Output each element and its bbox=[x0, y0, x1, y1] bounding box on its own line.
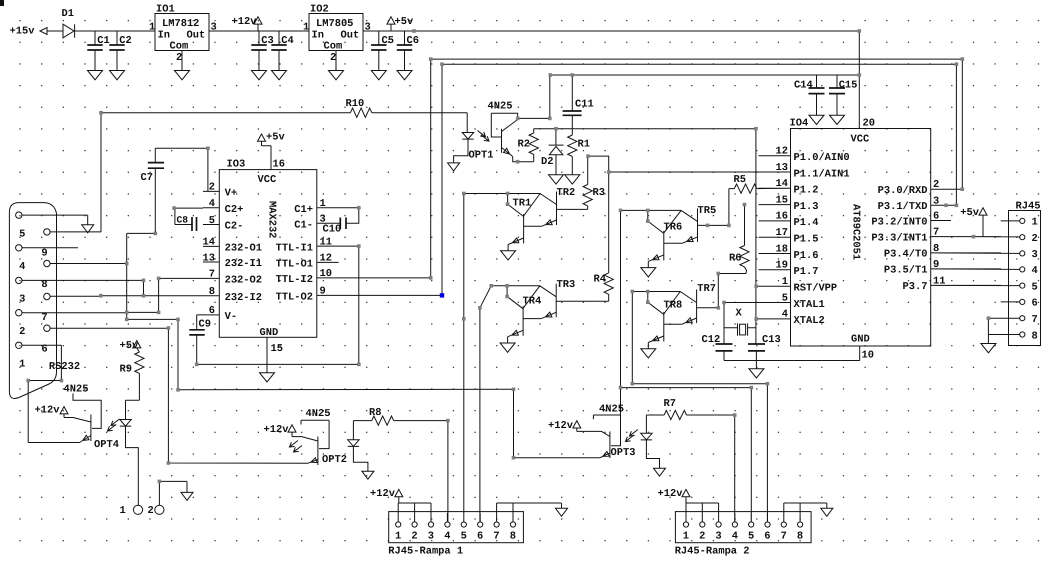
svg-text:1: 1 bbox=[683, 531, 689, 543]
svg-text:3: 3 bbox=[19, 294, 25, 306]
svg-text:232-I1: 232-I1 bbox=[225, 258, 262, 270]
svg-text:VCC: VCC bbox=[851, 134, 870, 146]
svg-text:R3: R3 bbox=[593, 187, 605, 199]
svg-text:C8: C8 bbox=[177, 214, 189, 225]
svg-text:2: 2 bbox=[148, 505, 154, 517]
svg-text:P1.0/AIN0: P1.0/AIN0 bbox=[794, 152, 850, 164]
svg-text:P1.2: P1.2 bbox=[794, 185, 819, 197]
svg-text:+12v: +12v bbox=[232, 16, 258, 28]
svg-text:13: 13 bbox=[776, 162, 788, 174]
svg-text:RJ45: RJ45 bbox=[1016, 200, 1041, 212]
svg-text:TR4: TR4 bbox=[523, 296, 542, 308]
svg-text:P3.1/TXD: P3.1/TXD bbox=[878, 201, 928, 213]
svg-text:5: 5 bbox=[19, 228, 25, 240]
svg-text:5: 5 bbox=[782, 292, 788, 304]
svg-text:12: 12 bbox=[776, 146, 788, 158]
svg-text:Out: Out bbox=[187, 30, 206, 42]
svg-text:13: 13 bbox=[203, 252, 215, 264]
svg-text:3: 3 bbox=[715, 531, 721, 543]
svg-text:2: 2 bbox=[176, 52, 182, 64]
svg-text:R1: R1 bbox=[578, 139, 590, 151]
svg-text:2: 2 bbox=[19, 326, 25, 338]
svg-text:19: 19 bbox=[776, 260, 788, 272]
svg-text:P3.3/INT1: P3.3/INT1 bbox=[871, 232, 927, 244]
svg-text:C3: C3 bbox=[261, 35, 273, 47]
svg-text:P1.3: P1.3 bbox=[794, 201, 819, 213]
svg-text:2: 2 bbox=[330, 52, 336, 64]
svg-text:R9: R9 bbox=[120, 364, 132, 376]
svg-text:TR2: TR2 bbox=[557, 187, 576, 199]
svg-text:C13: C13 bbox=[762, 334, 781, 346]
svg-text:+12v: +12v bbox=[264, 424, 290, 436]
svg-text:8: 8 bbox=[797, 531, 803, 543]
svg-text:14: 14 bbox=[203, 237, 215, 249]
svg-text:1: 1 bbox=[395, 531, 401, 543]
svg-text:C4: C4 bbox=[281, 35, 293, 47]
svg-text:TTL-I1: TTL-I1 bbox=[276, 242, 313, 254]
svg-text:4: 4 bbox=[19, 261, 25, 273]
svg-text:IO3: IO3 bbox=[227, 159, 246, 171]
svg-text:C11: C11 bbox=[575, 99, 594, 111]
svg-text:6: 6 bbox=[1032, 298, 1038, 310]
svg-text:17: 17 bbox=[776, 227, 788, 239]
svg-text:+15v: +15v bbox=[10, 26, 36, 38]
svg-text:12: 12 bbox=[320, 253, 332, 265]
svg-text:IO4: IO4 bbox=[790, 117, 809, 129]
svg-text:P3.5/T1: P3.5/T1 bbox=[884, 265, 928, 277]
svg-text:TR6: TR6 bbox=[664, 222, 683, 234]
svg-text:4N25: 4N25 bbox=[599, 404, 624, 416]
svg-text:C14: C14 bbox=[794, 80, 813, 92]
svg-text:10: 10 bbox=[320, 268, 332, 280]
svg-text:R10: R10 bbox=[346, 98, 365, 110]
svg-text:11: 11 bbox=[320, 236, 332, 248]
svg-text:D2: D2 bbox=[541, 156, 553, 168]
svg-text:In: In bbox=[158, 30, 170, 42]
svg-text:P1.4: P1.4 bbox=[794, 217, 819, 229]
svg-text:20: 20 bbox=[863, 117, 875, 129]
svg-text:4: 4 bbox=[732, 531, 738, 543]
svg-text:1: 1 bbox=[19, 359, 25, 371]
svg-text:R6: R6 bbox=[729, 253, 741, 265]
svg-text:7: 7 bbox=[209, 269, 215, 281]
svg-text:RS232: RS232 bbox=[49, 361, 80, 373]
svg-text:4N25: 4N25 bbox=[488, 101, 513, 113]
svg-text:TTL-I2: TTL-I2 bbox=[276, 274, 313, 286]
svg-text:GND: GND bbox=[851, 333, 870, 345]
svg-text:9: 9 bbox=[320, 286, 326, 298]
svg-text:4N25: 4N25 bbox=[64, 384, 89, 396]
svg-text:R8: R8 bbox=[369, 407, 381, 419]
svg-text:C9: C9 bbox=[199, 318, 211, 330]
svg-text:1: 1 bbox=[320, 198, 326, 210]
svg-text:15: 15 bbox=[271, 343, 283, 355]
svg-text:8: 8 bbox=[933, 243, 939, 255]
svg-text:8: 8 bbox=[41, 279, 47, 291]
svg-text:18: 18 bbox=[776, 243, 788, 255]
svg-text:+5v: +5v bbox=[395, 16, 414, 28]
svg-text:+12v: +12v bbox=[35, 405, 61, 417]
svg-text:6: 6 bbox=[933, 211, 939, 223]
svg-text:Com: Com bbox=[170, 41, 189, 53]
svg-text:P3.2/INT0: P3.2/INT0 bbox=[871, 216, 927, 228]
svg-text:1: 1 bbox=[120, 505, 126, 517]
svg-text:232-O1: 232-O1 bbox=[225, 243, 262, 255]
svg-text:Com: Com bbox=[324, 41, 343, 53]
svg-text:Out: Out bbox=[341, 30, 360, 42]
svg-text:LM7812: LM7812 bbox=[162, 18, 199, 30]
svg-text:C12: C12 bbox=[702, 334, 721, 346]
svg-text:+5v: +5v bbox=[120, 340, 139, 352]
svg-text:4N25: 4N25 bbox=[306, 408, 331, 420]
svg-text:+12v: +12v bbox=[370, 488, 396, 500]
svg-text:1: 1 bbox=[149, 22, 155, 34]
svg-text:3: 3 bbox=[365, 22, 371, 34]
svg-text:TTL-O1: TTL-O1 bbox=[276, 259, 313, 271]
svg-text:C15: C15 bbox=[839, 80, 858, 92]
svg-text:P3.4/T0: P3.4/T0 bbox=[884, 249, 928, 261]
svg-text:C1-: C1- bbox=[294, 219, 313, 231]
svg-text:P1.1/AIN1: P1.1/AIN1 bbox=[794, 168, 850, 180]
svg-text:V+: V+ bbox=[225, 188, 237, 200]
svg-text:6: 6 bbox=[477, 531, 483, 543]
svg-text:D1: D1 bbox=[62, 8, 74, 20]
svg-text:7: 7 bbox=[41, 312, 47, 324]
svg-text:RJ45-Rampa 2: RJ45-Rampa 2 bbox=[675, 546, 750, 558]
svg-text:7: 7 bbox=[933, 227, 939, 239]
svg-text:C10: C10 bbox=[323, 224, 342, 236]
svg-text:VCC: VCC bbox=[258, 174, 277, 186]
svg-text:2: 2 bbox=[933, 179, 939, 191]
svg-text:TR1: TR1 bbox=[513, 198, 532, 210]
svg-text:In: In bbox=[312, 30, 324, 42]
svg-text:8: 8 bbox=[1032, 330, 1038, 342]
svg-text:+12v: +12v bbox=[658, 488, 684, 500]
svg-text:14: 14 bbox=[776, 178, 788, 190]
svg-text:5: 5 bbox=[748, 531, 754, 543]
svg-text:C6: C6 bbox=[407, 35, 419, 47]
svg-text:C2-: C2- bbox=[225, 221, 244, 233]
svg-text:6: 6 bbox=[209, 305, 215, 317]
svg-text:16: 16 bbox=[776, 211, 788, 223]
svg-text:2: 2 bbox=[1032, 233, 1038, 245]
svg-text:R7: R7 bbox=[664, 398, 676, 410]
svg-text:TTL-O2: TTL-O2 bbox=[276, 292, 313, 304]
svg-text:+5v: +5v bbox=[960, 207, 979, 219]
svg-text:8: 8 bbox=[209, 286, 215, 298]
svg-text:TR8: TR8 bbox=[664, 300, 683, 312]
svg-text:9: 9 bbox=[933, 259, 939, 271]
svg-text:TR3: TR3 bbox=[557, 279, 576, 291]
svg-text:7: 7 bbox=[1032, 314, 1038, 326]
svg-text:RST/VPP: RST/VPP bbox=[794, 283, 838, 295]
svg-text:1: 1 bbox=[1032, 217, 1038, 229]
svg-text:+5v: +5v bbox=[266, 132, 285, 144]
svg-text:1: 1 bbox=[303, 22, 309, 34]
svg-text:TR5: TR5 bbox=[698, 205, 717, 217]
svg-text:3: 3 bbox=[1032, 249, 1038, 261]
svg-text:5: 5 bbox=[209, 215, 215, 227]
svg-text:R4: R4 bbox=[594, 274, 606, 286]
svg-text:4: 4 bbox=[444, 531, 450, 543]
svg-text:2: 2 bbox=[411, 531, 417, 543]
svg-text:X: X bbox=[736, 308, 743, 320]
svg-text:1: 1 bbox=[782, 276, 788, 288]
svg-text:R5: R5 bbox=[734, 174, 746, 186]
svg-text:XTAL1: XTAL1 bbox=[794, 299, 825, 311]
svg-text:P1.7: P1.7 bbox=[794, 266, 819, 278]
svg-text:7: 7 bbox=[493, 531, 499, 543]
svg-text:GND: GND bbox=[260, 327, 279, 339]
svg-text:LM7805: LM7805 bbox=[316, 18, 353, 30]
svg-text:XTAL2: XTAL2 bbox=[794, 315, 825, 327]
svg-text:4: 4 bbox=[1032, 265, 1038, 277]
svg-text:7: 7 bbox=[781, 531, 787, 543]
svg-text:10: 10 bbox=[862, 350, 874, 362]
svg-text:IO2: IO2 bbox=[310, 4, 329, 16]
svg-text:V-: V- bbox=[225, 311, 237, 323]
svg-text:4: 4 bbox=[209, 198, 215, 210]
svg-text:5: 5 bbox=[1032, 281, 1038, 293]
svg-text:C5: C5 bbox=[382, 35, 394, 47]
svg-text:6: 6 bbox=[41, 344, 47, 356]
svg-text:3: 3 bbox=[428, 531, 434, 543]
svg-text:8: 8 bbox=[510, 531, 516, 543]
svg-text:C7: C7 bbox=[141, 172, 153, 184]
svg-text:4: 4 bbox=[782, 309, 788, 321]
svg-text:2: 2 bbox=[209, 182, 215, 194]
svg-text:OPT4: OPT4 bbox=[94, 439, 119, 451]
svg-text:232-O2: 232-O2 bbox=[225, 275, 262, 287]
svg-text:232-I2: 232-I2 bbox=[225, 292, 262, 304]
svg-text:11: 11 bbox=[933, 275, 945, 287]
svg-text:P3.0/RXD: P3.0/RXD bbox=[878, 185, 928, 197]
svg-text:P1.6: P1.6 bbox=[794, 250, 819, 262]
svg-text:9: 9 bbox=[41, 247, 47, 259]
svg-text:TR7: TR7 bbox=[697, 283, 716, 295]
svg-text:2: 2 bbox=[699, 531, 705, 543]
svg-text:RJ45-Rampa 1: RJ45-Rampa 1 bbox=[388, 546, 463, 558]
svg-text:P1.5: P1.5 bbox=[794, 234, 819, 246]
svg-text:AT89C2051: AT89C2051 bbox=[850, 204, 862, 260]
svg-text:P3.7: P3.7 bbox=[903, 281, 928, 293]
svg-text:6: 6 bbox=[764, 531, 770, 543]
svg-text:C2+: C2+ bbox=[225, 204, 244, 216]
svg-text:OPT3: OPT3 bbox=[611, 447, 636, 459]
svg-text:C1+: C1+ bbox=[294, 204, 313, 216]
svg-text:MAX232: MAX232 bbox=[266, 201, 278, 238]
svg-text:OPT1: OPT1 bbox=[469, 149, 494, 161]
svg-text:5: 5 bbox=[461, 531, 467, 543]
svg-text:16: 16 bbox=[273, 159, 285, 171]
svg-text:C2: C2 bbox=[119, 35, 131, 47]
svg-text:3: 3 bbox=[211, 22, 217, 34]
svg-text:3: 3 bbox=[933, 195, 939, 207]
svg-text:+12v: +12v bbox=[548, 420, 574, 432]
svg-text:C1: C1 bbox=[97, 35, 109, 47]
svg-text:IO1: IO1 bbox=[156, 4, 175, 16]
svg-text:15: 15 bbox=[776, 194, 788, 206]
svg-text:OPT2: OPT2 bbox=[322, 454, 347, 466]
svg-text:R2: R2 bbox=[518, 139, 530, 151]
